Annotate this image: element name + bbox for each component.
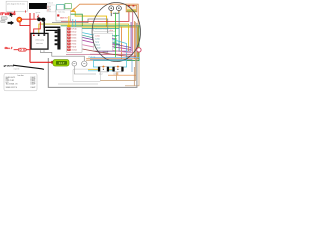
- svg-text:4 black: 4 black: [95, 44, 100, 46]
- ignition switch: [37, 15, 45, 22]
- injector stub wires: [88, 68, 113, 70]
- injector valve 1: [109, 6, 114, 11]
- relay small teal box: [57, 5, 65, 11]
- wire green (relay to right loom): [61, 26, 139, 61]
- cyan pin feed: [73, 19, 76, 27]
- wire olive (dizzy feed): [39, 24, 129, 51]
- main relay box: [56, 10, 71, 21]
- grey tag 2: [1, 20, 5, 22]
- ecu black bar connector: [55, 29, 61, 50]
- red wire to AFR gauge: [30, 61, 52, 63]
- wire green relay stub: [71, 14, 83, 26]
- thick black wire switch to ecu bar: [44, 22, 60, 28]
- wire cyan fan: [82, 33, 126, 61]
- fuse 40a: [18, 48, 26, 51]
- wire grey stub under ecu: [80, 42, 82, 52]
- yellow pin feed: [68, 16, 70, 25]
- wire grey (to sensor box): [52, 19, 108, 52]
- gauge pod circle 1: [72, 61, 77, 66]
- valve stems: [111, 11, 119, 17]
- wire orange right vertical: [134, 21, 136, 59]
- wire ground grey loop: [48, 23, 137, 87]
- red wire rail to fuse: [14, 49, 30, 51]
- wire dark red (coil): [90, 12, 133, 54]
- svg-text:14.7: 14.7: [59, 61, 65, 65]
- wire teal (long): [71, 29, 119, 52]
- grey tag 1: [1, 17, 7, 20]
- tan injector drop: [116, 72, 118, 80]
- dizzy ground stubs: [41, 50, 45, 53]
- title box: [6, 1, 27, 12]
- wire red relay stub: [70, 19, 72, 22]
- O2 sensor label box: [94, 26, 115, 31]
- wire orange inner vertical: [121, 27, 123, 59]
- wire purple (ecu to O2): [94, 22, 131, 51]
- svg-text:40a+ !!: 40a+ !!: [3, 47, 12, 50]
- red wire node down to rail: [20, 22, 30, 26]
- injector 1: [98, 66, 109, 72]
- ecu connector B with red pins: [67, 25, 82, 52]
- black header rect: [29, 3, 47, 9]
- wire yellow B (ecu top pin to loom): [71, 27, 138, 59]
- harness loop 2 (tan): [86, 61, 139, 86]
- relay small green box: [65, 4, 71, 9]
- white sub box: [73, 69, 100, 82]
- wire grey 2: [58, 83, 98, 85]
- svg-text:ground: ground: [3, 63, 14, 67]
- red wire node to switch: [22, 18, 37, 20]
- distributor box: [31, 33, 48, 49]
- wire maroon fan: [82, 49, 136, 56]
- svg-text:engine blk: engine blk: [14, 68, 20, 70]
- wire blue: [90, 60, 132, 72]
- wire yellow (relay to right loom): [71, 12, 107, 28]
- black wire into dizzy: [43, 27, 45, 33]
- list box: [47, 5, 55, 12]
- svg-text:inj 1-2: inj 1-2: [99, 74, 103, 76]
- svg-text:ecu: ecu: [49, 10, 51, 12]
- wire purple fan: [82, 37, 131, 47]
- AFR gauge: [51, 60, 69, 66]
- orange injector return: [108, 72, 136, 75]
- svg-text:MAIN RLY: MAIN RLY: [60, 17, 69, 20]
- O2 pinout box: [94, 33, 117, 50]
- wire tan right vertical: [97, 22, 136, 80]
- wire green O2 vertical: [115, 13, 117, 58]
- black wire 2: [46, 29, 58, 31]
- red wire switch to dizzy: [34, 22, 41, 34]
- svg-text:EF WIRING: EF WIRING: [0, 12, 16, 16]
- teal upper stub: [118, 13, 120, 29]
- red drop from fuse link: [33, 13, 35, 19]
- injector 2: [113, 66, 124, 72]
- injector valve 2: [117, 6, 122, 11]
- ground lead line: [13, 65, 44, 69]
- gauge pod circle 2: [82, 61, 87, 66]
- red exclamation: [13, 11, 16, 14]
- fuse box table: [4, 73, 37, 90]
- battery node: [17, 17, 22, 22]
- brown right drop: [133, 67, 135, 86]
- black arrow: [8, 21, 14, 25]
- coil connector (orange component): [126, 5, 137, 12]
- engine bay ellipse: [92, 3, 140, 62]
- svg-text:o2 wb sig: o2 wb sig: [88, 57, 95, 59]
- wire teal fan: [82, 35, 120, 44]
- svg-text:fuse box: fuse box: [17, 75, 23, 77]
- svg-text:z6 dizzy plug: z6 dizzy plug: [35, 40, 44, 42]
- wire light blue: [90, 57, 140, 60]
- red power rail: [29, 13, 31, 62]
- wire pink fan: [82, 45, 132, 53]
- wire magenta fan: [82, 40, 131, 49]
- O2 stub wires: [112, 35, 119, 37]
- cursor arrow: [10, 12, 14, 17]
- wire pink horizontal: [66, 53, 133, 55]
- svg-text:main relay: main relay: [58, 12, 65, 14]
- wire red relay feed: [61, 12, 129, 22]
- grey wire to pods: [41, 52, 85, 61]
- harness loop (orange outer): [75, 4, 139, 59]
- svg-text:wire diagram for ef civic: wire diagram for ef civic: [7, 2, 25, 5]
- orange wedge: [70, 8, 75, 12]
- valve orange tips: [110, 11, 112, 13]
- cyan injector harness box: [93, 60, 126, 67]
- grey pod drop wire: [74, 66, 96, 74]
- red node ring (mid right): [137, 48, 141, 52]
